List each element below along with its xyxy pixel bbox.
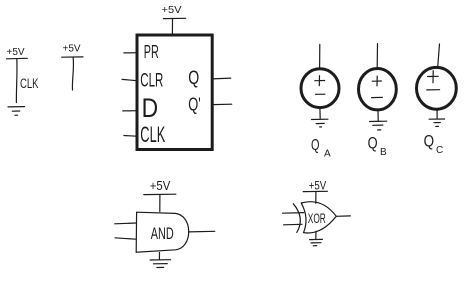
- VB minus sign: [372, 96, 383, 98]
- svg-text:+5V: +5V: [309, 179, 327, 193]
- wire VC top lead: [438, 44, 440, 66]
- wire +5V to flip-flop: [171, 19, 173, 34]
- wire VB top lead: [376, 44, 378, 67]
- XOR input arc: [293, 204, 300, 233]
- svg-text:Q: Q: [424, 132, 435, 151]
- wire +5V to XOR gate: [315, 192, 317, 204]
- AND gate body: [136, 212, 189, 252]
- svg-text:B: B: [380, 147, 387, 158]
- wire AND to ground: [158, 253, 160, 260]
- svg-text:Q': Q': [188, 95, 201, 115]
- XOR input stub 1: [283, 212, 304, 215]
- pin D stub: [123, 110, 137, 112]
- power +5V rail bar (CLK): [7, 57, 28, 60]
- XOR output stub: [336, 215, 350, 217]
- VC minus sign: [427, 89, 440, 91]
- power +5V bar (AND gate): [144, 193, 176, 195]
- flip-flop U1 body: [137, 35, 212, 150]
- power +5V bar (XOR gate): [303, 190, 327, 192]
- svg-text:C: C: [436, 145, 443, 156]
- svg-text:+5V: +5V: [150, 179, 171, 193]
- XOR gate body: [301, 202, 336, 233]
- svg-text:PR: PR: [144, 42, 159, 62]
- pin Q stub: [213, 77, 231, 80]
- svg-text:+5V: +5V: [63, 44, 81, 55]
- AND input stub 2: [115, 238, 136, 239]
- svg-text:CLK: CLK: [140, 122, 165, 147]
- wire +5V stub 2: [72, 57, 73, 90]
- AND output stub: [189, 230, 215, 233]
- svg-text:+5V: +5V: [162, 4, 182, 16]
- svg-text:Q: Q: [368, 134, 378, 153]
- XOR input stub 2: [284, 223, 302, 226]
- svg-text:A: A: [324, 148, 331, 159]
- VA plus sign: [315, 76, 325, 86]
- pin CLR stub: [122, 79, 137, 80]
- source VB circle: [359, 69, 397, 110]
- VC plus sign: [428, 71, 439, 83]
- source VC circle: [417, 67, 457, 109]
- wire VC to ground: [436, 110, 438, 119]
- ground (VC): [429, 119, 445, 127]
- wire CLK vertical: [15, 59, 18, 103]
- ground (AND): [150, 260, 171, 268]
- ground (VB): [370, 121, 387, 130]
- pin PR stub: [124, 52, 137, 54]
- source VA circle: [301, 69, 339, 108]
- VA minus sign: [316, 93, 325, 95]
- power +5V bar (flip-flop): [164, 17, 186, 19]
- ground (XOR): [310, 239, 323, 245]
- power +5V rail bar 2: [62, 56, 83, 58]
- svg-text:AND: AND: [151, 224, 174, 243]
- VB plus sign: [372, 76, 381, 86]
- svg-text:Q: Q: [188, 68, 199, 89]
- AND input stub 1: [115, 222, 136, 225]
- wire VA to ground: [319, 108, 321, 119]
- wire XOR to ground: [315, 231, 317, 238]
- wire VB to ground: [377, 111, 379, 121]
- pin CLK stub: [124, 135, 137, 138]
- svg-text:CLR: CLR: [140, 71, 163, 92]
- ground (VA): [312, 119, 328, 127]
- wire VA top lead: [319, 44, 321, 68]
- svg-text:Q: Q: [311, 137, 320, 154]
- ground (CLK rail): [8, 107, 25, 116]
- wire +5V to AND gate: [159, 195, 161, 212]
- svg-text:D: D: [142, 93, 159, 123]
- svg-text:+5V: +5V: [7, 47, 25, 58]
- svg-text:XOR: XOR: [308, 211, 326, 226]
- svg-text:CLK: CLK: [20, 76, 39, 91]
- pin Q' stub: [213, 103, 232, 105]
